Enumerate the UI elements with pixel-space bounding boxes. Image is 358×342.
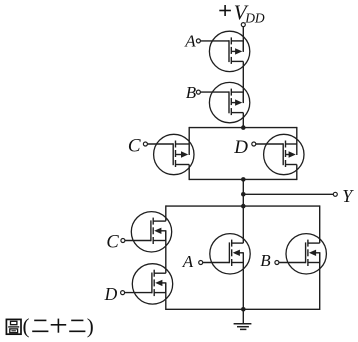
PUN box top rail — [189, 127, 297, 129]
PDN box top rail — [166, 205, 320, 207]
wire Q7 source to bottom rail — [242, 263, 244, 310]
PUN left edge lower — [188, 165, 190, 181]
caption glyph 十 — [51, 319, 66, 333]
PUN right edge upper — [296, 127, 298, 144]
svg-text:D: D — [104, 284, 118, 304]
PDN left edge upper — [165, 205, 167, 221]
transistor Q6 input D (NMOS) — [121, 264, 173, 304]
transistor Q2 input B (PMOS) — [196, 82, 249, 122]
svg-text:A: A — [184, 32, 196, 51]
transistor Q5 input C (NMOS) — [121, 212, 172, 252]
svg-text:C: C — [128, 136, 141, 157]
svg-text:D: D — [233, 137, 248, 158]
svg-text:B: B — [260, 251, 271, 270]
Y terminal — [333, 192, 337, 196]
PDN box bottom rail — [166, 308, 320, 310]
caption glyph 二 (1) — [32, 320, 48, 331]
PDN left edge middle — [165, 231, 167, 273]
node: PUN bottom rail — [241, 177, 246, 182]
PUN box bottom rail — [189, 178, 297, 180]
caption glyph 二 (2) — [69, 320, 85, 331]
transistor Q1 input A (PMOS) — [196, 31, 249, 71]
PDN right edge lower — [319, 252, 321, 310]
wire Q1 to Q2 — [242, 61, 244, 102]
PDN left edge lower — [165, 283, 167, 310]
transistor Q4 input D (PMOS) — [252, 134, 304, 174]
node: Y tap — [241, 192, 246, 197]
PUN left edge upper — [188, 127, 190, 144]
transistor Q7 input A (NMOS) — [199, 234, 251, 274]
svg-text:): ) — [87, 314, 94, 338]
svg-text:B: B — [186, 83, 197, 102]
wire Q2 to PUN box — [242, 113, 244, 128]
wire to Y terminal — [243, 193, 333, 195]
node: rail joins PDN top — [241, 204, 246, 209]
node: rail joins PUN top — [241, 125, 246, 130]
PDN right edge upper — [319, 205, 321, 243]
node: ground junction — [241, 307, 246, 312]
PUN right edge lower — [296, 165, 298, 181]
svg-text:C: C — [106, 233, 119, 253]
ground — [234, 309, 252, 329]
VDD terminal — [241, 23, 245, 27]
transistor Q3 input C (PMOS) — [143, 134, 194, 174]
transistor Q8 input B (NMOS) — [275, 234, 327, 274]
label +VDD — [219, 10, 231, 12]
wire PUN to PDN — [242, 179, 244, 243]
svg-text:A: A — [182, 252, 194, 271]
caption glyph 圖 — [6, 319, 21, 334]
wire VDD to Q1 — [242, 27, 244, 52]
svg-text:(: ( — [23, 314, 30, 338]
svg-text:DD: DD — [244, 11, 265, 26]
